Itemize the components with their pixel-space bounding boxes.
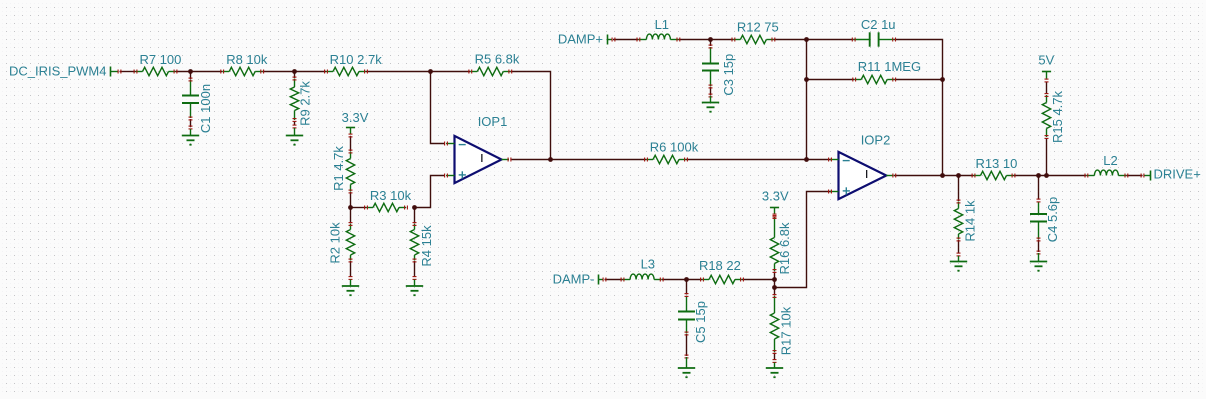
- wire: [773, 39, 853, 41]
- ground: [342, 285, 359, 287]
- power 5V: [1042, 71, 1051, 73]
- svg-text:R1 4.7k: R1 4.7k: [331, 146, 346, 191]
- junction: [412, 205, 417, 210]
- resistor R7: [136, 71, 143, 73]
- wire + corner to feedback: [510, 72, 550, 160]
- port DAMP+: [607, 35, 609, 45]
- inductor L2: [1086, 175, 1094, 177]
- svg-text:5V: 5V: [1038, 52, 1054, 67]
- capacitor C1: [190, 80, 192, 96]
- junction: [940, 77, 945, 82]
- wire: [774, 280, 776, 288]
- resistor R17: [774, 296, 776, 313]
- svg-text:C3 15p: C3 15p: [721, 54, 736, 96]
- svg-text:R10 2.7k: R10 2.7k: [330, 52, 383, 67]
- wire: [1126, 175, 1142, 177]
- wire: [1038, 176, 1040, 200]
- wire: [605, 279, 623, 281]
- wire: [710, 40, 712, 47]
- svg-text:R5 6.8k: R5 6.8k: [475, 51, 520, 66]
- svg-text:C4 5.6p: C4 5.6p: [1045, 197, 1060, 243]
- wire: [350, 192, 352, 208]
- capacitor C5: [686, 296, 688, 312]
- svg-text:L3: L3: [641, 256, 655, 271]
- wire: [742, 279, 775, 281]
- wire: [678, 39, 733, 41]
- junction: [428, 69, 433, 74]
- wire: [686, 280, 688, 295]
- junction: [188, 69, 193, 74]
- resistor R3: [366, 207, 373, 209]
- ground: [702, 102, 719, 104]
- ground: [182, 135, 199, 137]
- wire: [774, 272, 776, 280]
- resistor R16: [774, 217, 776, 238]
- wire: [958, 240, 960, 253]
- junction: [772, 285, 777, 290]
- wire: [1014, 175, 1087, 177]
- resistor R18: [702, 279, 709, 281]
- ground: [766, 367, 783, 369]
- wire + corner down right of C2: [894, 40, 942, 176]
- svg-text:R11 1MEG: R11 1MEG: [858, 59, 921, 74]
- port DRIVE+: [1150, 171, 1152, 181]
- svg-text:R8 10k: R8 10k: [226, 52, 268, 67]
- ground: [950, 261, 967, 263]
- wire: [351, 207, 367, 209]
- junction: [1044, 173, 1049, 178]
- junction: [548, 157, 553, 162]
- wire: [686, 334, 688, 356]
- resistor R11: [854, 79, 861, 81]
- svg-text:C1 100n: C1 100n: [198, 84, 213, 133]
- wire: [414, 208, 416, 224]
- port DAMP-: [598, 275, 600, 285]
- junction: [348, 205, 353, 210]
- svg-text:C5 15p: C5 15p: [693, 301, 708, 343]
- resistor R2: [350, 224, 352, 230]
- svg-text:DAMP+: DAMP+: [558, 32, 603, 47]
- svg-text:R2 10k: R2 10k: [328, 222, 343, 264]
- resistor R14: [958, 202, 960, 209]
- wire: [894, 175, 974, 177]
- wire: [294, 72, 296, 79]
- svg-text:L1: L1: [655, 17, 669, 32]
- wire R3 node to IOP1 non-inverting input: [415, 176, 445, 208]
- resistor R15: [1046, 95, 1048, 103]
- wire: [710, 87, 712, 96]
- svg-text:3.3V: 3.3V: [762, 189, 789, 204]
- op-amp IOP2: [839, 152, 887, 199]
- power 3.3V (right): [770, 207, 779, 209]
- wire: [512, 159, 647, 161]
- junction: [804, 77, 809, 82]
- port DC_IRIS_PWM4: [110, 67, 112, 77]
- junction: [804, 157, 809, 162]
- resistor R12: [733, 39, 740, 41]
- svg-text:R17 10k: R17 10k: [778, 306, 793, 355]
- wire: [176, 71, 223, 73]
- junction: [684, 277, 689, 282]
- svg-text:R15 4.7k: R15 4.7k: [1050, 90, 1065, 143]
- junction: [956, 173, 961, 178]
- wire: [613, 39, 638, 41]
- junction: [804, 37, 809, 42]
- resistor R13: [974, 175, 981, 177]
- ground: [286, 135, 303, 137]
- junction: [1036, 173, 1041, 178]
- inductor L1: [638, 39, 646, 41]
- ground: [678, 367, 695, 369]
- junction: [708, 37, 713, 42]
- svg-text:IOP2: IOP2: [861, 133, 891, 148]
- resistor R4: [414, 224, 416, 230]
- svg-text:3.3V: 3.3V: [342, 110, 369, 125]
- wire: [366, 71, 470, 73]
- svg-text:R14 1k: R14 1k: [962, 200, 977, 242]
- capacitor C2: [854, 39, 870, 41]
- resistor R10: [326, 71, 333, 73]
- op-amp IOP1: [455, 136, 502, 183]
- resistor R1: [350, 152, 352, 159]
- svg-text:DAMP-: DAMP-: [553, 272, 595, 287]
- svg-text:DC_IRIS_PWM4: DC_IRIS_PWM4: [9, 64, 107, 79]
- resistor R9: [294, 79, 296, 88]
- wire: [120, 71, 136, 73]
- svg-text:R9 2.7k: R9 2.7k: [297, 81, 312, 126]
- wire: [686, 159, 807, 161]
- svg-text:DRIVE+: DRIVE+: [1154, 167, 1201, 182]
- wire: [894, 79, 942, 81]
- wire: [807, 79, 855, 81]
- wire to IOP1 inverting input: [431, 72, 445, 144]
- wire: [807, 159, 832, 161]
- junction: [940, 173, 945, 178]
- wire: [350, 208, 352, 224]
- resistor R6: [646, 159, 653, 161]
- wire: [262, 71, 326, 73]
- resistor R5: [470, 71, 477, 73]
- wire: [414, 261, 416, 277]
- junction: [772, 277, 777, 282]
- svg-text:IOP1: IOP1: [478, 114, 508, 129]
- inductor L3: [623, 279, 631, 281]
- wire node column: [806, 40, 808, 160]
- wire: [190, 72, 192, 80]
- svg-text:R16 6.8k: R16 6.8k: [777, 222, 792, 275]
- svg-text:C2 1u: C2 1u: [861, 17, 896, 32]
- wire: [350, 136, 352, 151]
- wire: [662, 279, 702, 281]
- ground: [1030, 261, 1047, 263]
- svg-text:R4 15k: R4 15k: [419, 225, 434, 267]
- capacitor C4: [1038, 202, 1040, 214]
- wire: [1046, 82, 1048, 94]
- svg-text:R6 100k: R6 100k: [650, 139, 699, 154]
- svg-text:R12 75: R12 75: [737, 20, 779, 35]
- wire to IOP2 non-inverting input: [775, 192, 832, 288]
- wire: [774, 353, 776, 360]
- svg-text:R13 10: R13 10: [975, 156, 1017, 171]
- svg-text:L2: L2: [1103, 153, 1117, 168]
- wire: [958, 176, 960, 202]
- svg-text:R3 10k: R3 10k: [370, 188, 412, 203]
- wire: [190, 119, 192, 127]
- ground: [406, 285, 423, 287]
- wire: [350, 261, 352, 277]
- capacitor C3: [710, 47, 712, 64]
- wire: [1038, 240, 1040, 253]
- svg-text:R7 100: R7 100: [139, 52, 181, 67]
- wire: [294, 122, 296, 126]
- wire: [774, 288, 776, 296]
- resistor R8: [222, 71, 229, 73]
- power 3.3V (left): [346, 127, 355, 129]
- wire: [1046, 138, 1048, 176]
- junction: [292, 69, 297, 74]
- svg-text:R18 22: R18 22: [699, 258, 741, 273]
